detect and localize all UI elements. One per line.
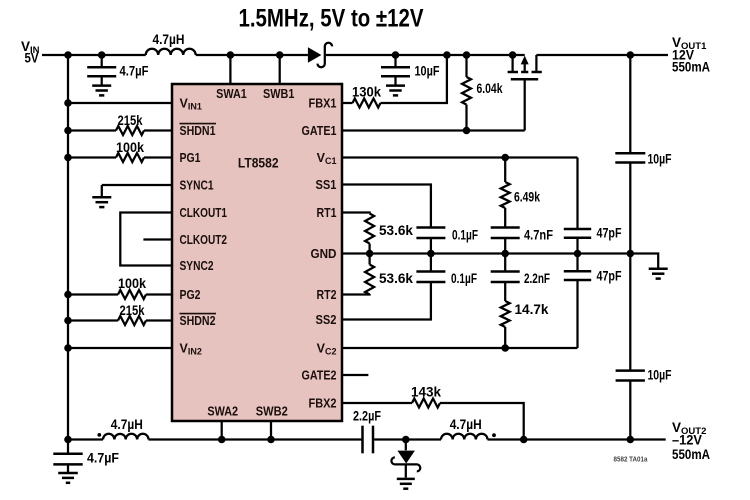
svg-text:215k: 215k [120, 303, 145, 318]
svg-text:RT1: RT1 [317, 206, 337, 220]
svg-text:550mA: 550mA [672, 447, 710, 462]
svg-text:47pF: 47pF [597, 269, 622, 284]
svg-text:4.7µH: 4.7µH [450, 417, 482, 432]
svg-text:10µF: 10µF [648, 368, 672, 383]
svg-text:100k: 100k [118, 276, 146, 291]
svg-text:6.49k: 6.49k [514, 190, 540, 205]
svg-text:SWA1: SWA1 [216, 87, 247, 101]
svg-text:FBX1: FBX1 [309, 97, 337, 111]
svg-text:215k: 215k [118, 113, 143, 128]
svg-text:FBX2: FBX2 [309, 397, 337, 411]
svg-text:SS1: SS1 [316, 178, 337, 192]
svg-text:4.7µH: 4.7µH [153, 32, 185, 47]
svg-text:SWB2: SWB2 [256, 404, 288, 418]
svg-text:47pF: 47pF [597, 226, 622, 241]
svg-text:SYNC1: SYNC1 [180, 179, 214, 193]
svg-text:SWB1: SWB1 [263, 87, 294, 101]
svg-text:SYNC2: SYNC2 [180, 259, 214, 273]
svg-text:–12V: –12V [672, 432, 702, 447]
svg-text:8582 TA01a: 8582 TA01a [614, 456, 648, 463]
svg-text:10µF: 10µF [648, 152, 672, 167]
svg-text:CLKOUT2: CLKOUT2 [180, 233, 228, 247]
svg-text:6.04k: 6.04k [477, 81, 503, 96]
svg-text:GATE2: GATE2 [302, 369, 337, 383]
svg-text:0.1µF: 0.1µF [451, 271, 477, 286]
svg-text:4.7µF: 4.7µF [87, 451, 119, 466]
svg-text:LT8582: LT8582 [238, 156, 279, 171]
svg-text:RT2: RT2 [317, 288, 337, 302]
svg-text:5V: 5V [25, 51, 39, 66]
svg-text:PG2: PG2 [180, 288, 201, 302]
svg-text:0.1µF: 0.1µF [452, 228, 478, 243]
svg-text:4.7µH: 4.7µH [111, 417, 143, 432]
svg-text:SHDN2: SHDN2 [180, 314, 216, 328]
svg-text:10µF: 10µF [415, 64, 440, 79]
svg-text:GND: GND [311, 247, 337, 261]
svg-text:53.6k: 53.6k [379, 223, 413, 238]
svg-text:SWA2: SWA2 [207, 404, 238, 418]
svg-text:550mA: 550mA [672, 60, 710, 75]
svg-text:130k: 130k [352, 85, 381, 100]
svg-text:143k: 143k [411, 385, 441, 400]
svg-text:2.2µF: 2.2µF [353, 408, 381, 423]
svg-text:53.6k: 53.6k [379, 271, 413, 286]
svg-text:2.2nF: 2.2nF [524, 271, 550, 286]
svg-text:SS2: SS2 [316, 313, 337, 327]
svg-text:SHDN1: SHDN1 [180, 124, 216, 138]
svg-text:CLKOUT1: CLKOUT1 [180, 206, 228, 220]
svg-text:GATE1: GATE1 [302, 124, 337, 138]
svg-text:1.5MHz, 5V to ±12V: 1.5MHz, 5V to ±12V [239, 5, 424, 33]
svg-text:100k: 100k [116, 140, 144, 155]
svg-text:PG1: PG1 [180, 151, 201, 165]
svg-text:4.7nF: 4.7nF [524, 228, 553, 243]
svg-text:14.7k: 14.7k [515, 302, 549, 317]
svg-text:4.7µF: 4.7µF [120, 64, 149, 79]
